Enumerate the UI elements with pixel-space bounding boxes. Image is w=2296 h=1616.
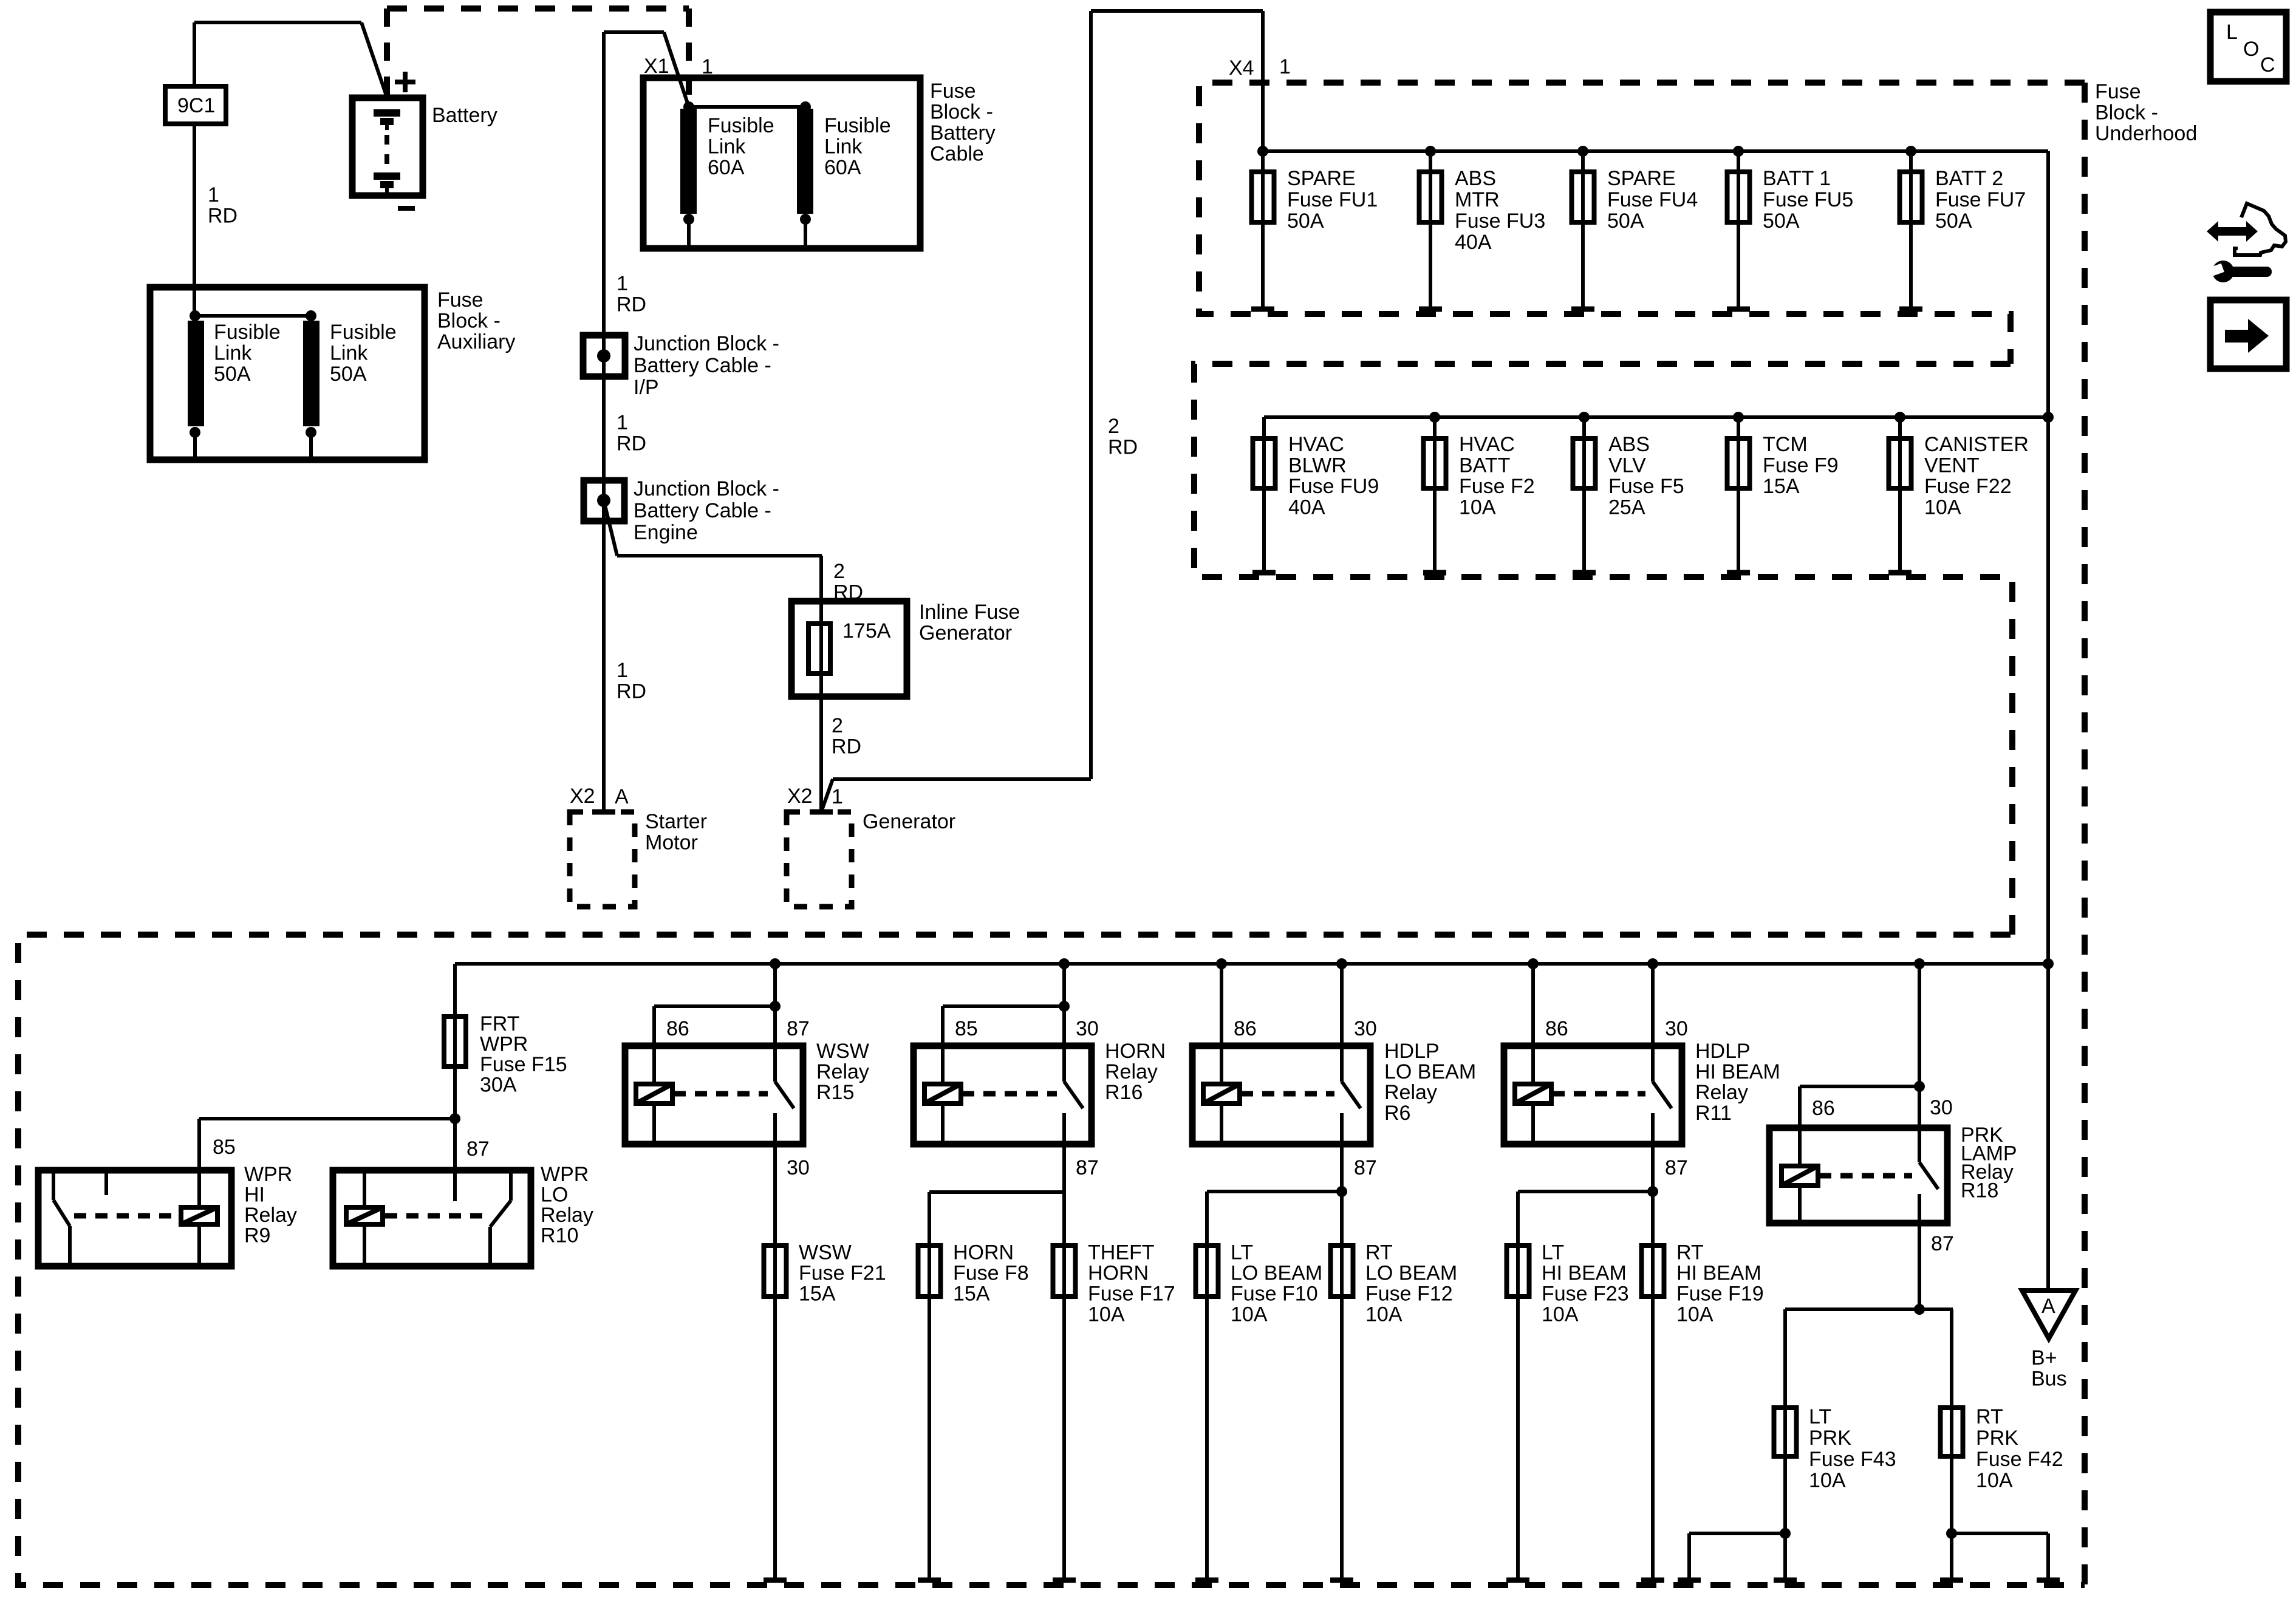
svg-text:R15: R15 [816, 1081, 854, 1104]
svg-text:15A: 15A [953, 1283, 990, 1306]
svg-text:Fuse F9: Fuse F9 [1763, 454, 1839, 477]
svg-text:10A: 10A [1676, 1303, 1713, 1326]
svg-text:2: 2 [832, 714, 843, 737]
svg-text:HI BEAM: HI BEAM [1695, 1060, 1780, 1083]
svg-text:MTR: MTR [1455, 188, 1500, 211]
svg-text:2: 2 [833, 560, 845, 583]
svg-text:WPR: WPR [480, 1033, 528, 1056]
svg-text:Fuse FU4: Fuse FU4 [1607, 188, 1698, 211]
svg-text:Relay: Relay [816, 1060, 869, 1083]
svg-text:87: 87 [1665, 1156, 1688, 1179]
svg-text:THEFT: THEFT [1088, 1241, 1155, 1264]
svg-text:Engine: Engine [634, 521, 698, 544]
svg-text:40A: 40A [1455, 231, 1492, 254]
svg-text:Block -: Block - [2095, 101, 2158, 124]
svg-text:B+: B+ [2031, 1346, 2057, 1369]
svg-text:10A: 10A [1976, 1469, 2013, 1492]
svg-text:85: 85 [213, 1136, 236, 1159]
svg-text:Block -: Block - [930, 101, 993, 124]
svg-text:2: 2 [1108, 415, 1119, 438]
svg-text:C: C [2260, 53, 2275, 77]
svg-text:Underhood: Underhood [2095, 122, 2197, 145]
svg-text:HDLP: HDLP [1384, 1040, 1440, 1063]
svg-text:Relay: Relay [1384, 1081, 1437, 1104]
svg-text:Fuse F42: Fuse F42 [1976, 1448, 2063, 1471]
svg-text:LT: LT [1231, 1241, 1253, 1264]
svg-text:50A: 50A [1287, 210, 1324, 233]
svg-text:60A: 60A [708, 156, 745, 179]
svg-text:30: 30 [1076, 1017, 1099, 1040]
svg-text:R11: R11 [1695, 1102, 1732, 1125]
svg-text:BATT 2: BATT 2 [1935, 167, 2003, 190]
svg-text:10A: 10A [1809, 1469, 1846, 1492]
svg-text:HORN: HORN [1088, 1262, 1149, 1285]
svg-text:Fuse F21: Fuse F21 [799, 1262, 886, 1285]
svg-text:RD: RD [617, 293, 646, 316]
svg-text:Fuse F5: Fuse F5 [1608, 475, 1684, 498]
svg-text:Junction Block -: Junction Block - [634, 332, 779, 355]
svg-text:Relay: Relay [244, 1204, 297, 1227]
svg-text:9C1: 9C1 [177, 94, 215, 117]
svg-text:15A: 15A [799, 1283, 836, 1306]
svg-text:1: 1 [617, 659, 628, 682]
svg-text:WPR: WPR [244, 1163, 292, 1186]
svg-text:RD: RD [832, 735, 861, 759]
svg-text:Fuse F19: Fuse F19 [1676, 1283, 1764, 1306]
svg-text:86: 86 [666, 1017, 689, 1040]
svg-text:86: 86 [1812, 1097, 1835, 1120]
svg-text:Inline Fuse: Inline Fuse [919, 601, 1020, 624]
svg-text:R10: R10 [541, 1224, 578, 1247]
svg-text:Block -: Block - [437, 310, 501, 333]
svg-text:LT: LT [1809, 1405, 1831, 1428]
svg-text:BATT 1: BATT 1 [1763, 167, 1831, 190]
svg-text:WPR: WPR [541, 1163, 589, 1186]
svg-text:30: 30 [1930, 1096, 1953, 1119]
svg-text:WSW: WSW [816, 1040, 869, 1063]
svg-text:SPARE: SPARE [1607, 167, 1676, 190]
svg-text:RT: RT [1365, 1241, 1393, 1264]
svg-text:RD: RD [617, 680, 646, 703]
svg-text:Relay: Relay [1695, 1081, 1748, 1104]
svg-text:Fusible: Fusible [330, 321, 397, 344]
svg-text:I/P: I/P [634, 376, 659, 399]
svg-text:Fuse F8: Fuse F8 [953, 1262, 1029, 1285]
svg-text:HI BEAM: HI BEAM [1676, 1262, 1761, 1285]
svg-text:WSW: WSW [799, 1241, 852, 1264]
svg-text:Link: Link [330, 342, 368, 365]
svg-text:87: 87 [1354, 1156, 1377, 1179]
svg-text:Junction Block -: Junction Block - [634, 477, 779, 500]
svg-text:O: O [2243, 38, 2259, 61]
svg-text:SPARE: SPARE [1287, 167, 1356, 190]
svg-text:RD: RD [617, 432, 646, 455]
svg-text:Relay: Relay [541, 1204, 593, 1227]
svg-text:Link: Link [214, 342, 252, 365]
svg-text:50A: 50A [1607, 210, 1644, 233]
svg-text:BATT: BATT [1459, 454, 1510, 477]
svg-text:Fuse F12: Fuse F12 [1365, 1283, 1453, 1306]
svg-text:30: 30 [1354, 1017, 1377, 1040]
svg-text:FRT: FRT [480, 1012, 519, 1035]
svg-text:Battery Cable -: Battery Cable - [634, 499, 771, 522]
svg-text:HVAC: HVAC [1288, 433, 1344, 456]
svg-text:25A: 25A [1608, 496, 1645, 519]
svg-text:Fusible: Fusible [214, 321, 281, 344]
svg-text:86: 86 [1234, 1017, 1257, 1040]
svg-text:86: 86 [1545, 1017, 1568, 1040]
svg-text:Link: Link [708, 135, 746, 159]
svg-text:Fuse F2: Fuse F2 [1459, 475, 1535, 498]
svg-text:TCM: TCM [1763, 433, 1808, 456]
svg-text:10A: 10A [1231, 1303, 1268, 1326]
svg-text:50A: 50A [330, 363, 367, 386]
svg-text:Fuse: Fuse [437, 288, 483, 312]
svg-text:10A: 10A [1365, 1303, 1403, 1326]
svg-text:Generator: Generator [919, 622, 1012, 645]
svg-text:30A: 30A [480, 1074, 517, 1097]
svg-text:A: A [2041, 1295, 2055, 1318]
svg-text:Battery: Battery [432, 104, 497, 127]
svg-text:Fuse FU5: Fuse FU5 [1763, 188, 1853, 211]
svg-text:HI BEAM: HI BEAM [1542, 1262, 1627, 1285]
svg-text:Motor: Motor [645, 831, 698, 854]
svg-text:X2: X2 [570, 785, 595, 808]
svg-text:Fuse: Fuse [2095, 80, 2141, 103]
svg-text:PRK: PRK [1809, 1427, 1851, 1450]
svg-text:50A: 50A [1763, 210, 1800, 233]
svg-text:Fuse F17: Fuse F17 [1088, 1283, 1175, 1306]
svg-text:Fuse: Fuse [930, 80, 976, 103]
svg-text:87: 87 [466, 1137, 490, 1161]
svg-text:HDLP: HDLP [1695, 1040, 1751, 1063]
svg-text:RD: RD [1108, 436, 1138, 459]
svg-text:50A: 50A [214, 363, 251, 386]
svg-text:Fusible: Fusible [824, 114, 891, 137]
svg-text:Generator: Generator [863, 810, 955, 833]
svg-text:BLWR: BLWR [1288, 454, 1347, 477]
svg-text:Cable: Cable [930, 143, 984, 166]
svg-text:RT: RT [1676, 1241, 1704, 1264]
svg-text:HVAC: HVAC [1459, 433, 1515, 456]
svg-text:10A: 10A [1542, 1303, 1579, 1326]
svg-text:Starter: Starter [645, 810, 707, 833]
svg-text:VENT: VENT [1924, 454, 1980, 477]
svg-text:RD: RD [208, 205, 237, 228]
svg-text:Battery Cable -: Battery Cable - [634, 354, 771, 377]
svg-text:1: 1 [832, 785, 843, 808]
svg-text:Fuse FU3: Fuse FU3 [1455, 210, 1545, 233]
svg-text:Auxiliary: Auxiliary [437, 330, 515, 353]
svg-text:X4: X4 [1229, 56, 1254, 80]
svg-text:CANISTER: CANISTER [1924, 433, 2029, 456]
svg-text:87: 87 [787, 1017, 810, 1040]
svg-text:40A: 40A [1288, 496, 1325, 519]
svg-text:87: 87 [1931, 1232, 1954, 1255]
svg-text:Fuse F22: Fuse F22 [1924, 475, 2012, 498]
svg-text:Battery: Battery [930, 121, 996, 145]
svg-text:1: 1 [208, 183, 219, 206]
svg-text:Fuse F43: Fuse F43 [1809, 1448, 1896, 1471]
svg-text:R6: R6 [1384, 1102, 1410, 1125]
svg-text:Fuse FU7: Fuse FU7 [1935, 188, 2026, 211]
svg-text:85: 85 [955, 1017, 978, 1040]
svg-text:LO BEAM: LO BEAM [1384, 1060, 1476, 1083]
svg-text:R18: R18 [1961, 1179, 1998, 1202]
svg-text:Fusible: Fusible [708, 114, 774, 137]
svg-text:ABS: ABS [1608, 433, 1650, 456]
svg-text:X2: X2 [787, 785, 813, 808]
svg-text:Relay: Relay [1105, 1060, 1158, 1083]
svg-text:30: 30 [1665, 1017, 1688, 1040]
svg-text:10A: 10A [1459, 496, 1496, 519]
svg-text:Fuse F23: Fuse F23 [1542, 1283, 1629, 1306]
svg-text:175A: 175A [842, 619, 891, 643]
svg-text:R16: R16 [1105, 1081, 1143, 1104]
svg-text:LT: LT [1542, 1241, 1564, 1264]
svg-text:VLV: VLV [1608, 454, 1646, 477]
svg-text:LO BEAM: LO BEAM [1365, 1262, 1457, 1285]
svg-text:60A: 60A [824, 156, 861, 179]
svg-text:LO BEAM: LO BEAM [1231, 1262, 1322, 1285]
svg-text:A: A [615, 785, 629, 808]
svg-text:15A: 15A [1763, 475, 1800, 498]
svg-text:1: 1 [617, 272, 628, 295]
svg-text:1: 1 [702, 55, 713, 78]
svg-text:10A: 10A [1924, 496, 1961, 519]
svg-text:10A: 10A [1088, 1303, 1125, 1326]
svg-text:Fuse F15: Fuse F15 [480, 1053, 567, 1076]
svg-text:Bus: Bus [2031, 1368, 2067, 1391]
svg-text:30: 30 [787, 1156, 810, 1179]
svg-text:Fuse F10: Fuse F10 [1231, 1283, 1318, 1306]
svg-text:1: 1 [1279, 55, 1291, 78]
svg-text:LO: LO [541, 1184, 568, 1207]
svg-text:HI: HI [244, 1184, 265, 1207]
svg-text:R9: R9 [244, 1224, 270, 1247]
svg-text:HORN: HORN [1105, 1040, 1166, 1063]
svg-text:PRK: PRK [1976, 1427, 2018, 1450]
svg-text:HORN: HORN [953, 1241, 1014, 1264]
svg-text:Link: Link [824, 135, 863, 159]
svg-text:Fuse FU1: Fuse FU1 [1287, 188, 1378, 211]
svg-text:Fuse FU9: Fuse FU9 [1288, 475, 1379, 498]
svg-text:ABS: ABS [1455, 167, 1496, 190]
svg-text:RT: RT [1976, 1405, 2003, 1428]
svg-text:1: 1 [617, 411, 628, 434]
svg-text:X1: X1 [644, 55, 669, 78]
svg-text:50A: 50A [1935, 210, 1972, 233]
svg-text:L: L [2226, 21, 2238, 44]
svg-text:87: 87 [1076, 1156, 1099, 1179]
